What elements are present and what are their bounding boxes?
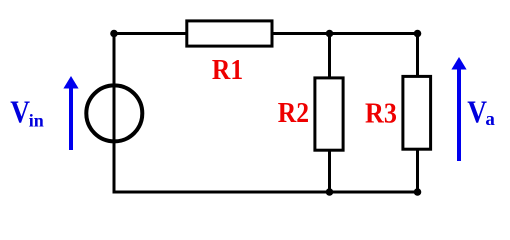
resistor R3 body: [403, 76, 431, 149]
voltage source V1 (circle): [86, 85, 142, 141]
junction dot top R2 node: [326, 30, 334, 38]
junction dot bottom R2 node: [326, 188, 334, 196]
svg-text:a: a: [485, 109, 495, 130]
wire bottom (ground return): [113, 191, 420, 194]
resistor R1 body: [187, 21, 272, 46]
svg-text:V: V: [10, 94, 30, 130]
junction dot bottom R3 node: [414, 188, 422, 196]
wire R3 branch vertical: [416, 32, 419, 194]
wire R2 branch vertical: [328, 32, 331, 194]
wire left vertical through source: [113, 32, 116, 194]
arrow Va (blue, pointing up): [451, 57, 466, 161]
svg-text:R1: R1: [212, 54, 243, 86]
arrow Vin (blue, pointing up): [63, 76, 78, 150]
svg-text:R2: R2: [278, 97, 309, 129]
resistor R2 body: [315, 78, 343, 150]
junction dot top-left node: [110, 30, 118, 38]
wire top (node between source, R1 left): [113, 32, 420, 35]
svg-text:V: V: [467, 94, 487, 130]
junction dot top R3 node: [414, 30, 422, 38]
svg-text:in: in: [29, 110, 44, 130]
svg-text:R3: R3: [365, 98, 397, 130]
